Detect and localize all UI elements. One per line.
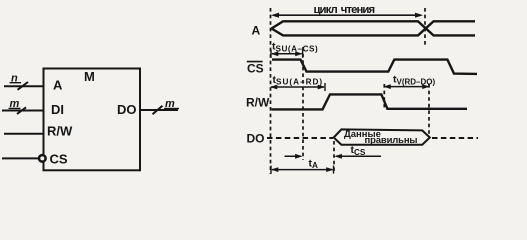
svg-text:правильны: правильны: [365, 135, 418, 146]
dashed line at cycle end: [424, 8, 426, 45]
svg-text:A: A: [252, 24, 261, 38]
bus A waveform: [272, 21, 476, 35]
svg-text:DO: DO: [117, 102, 137, 117]
read-cycle dimension arrow: [273, 14, 421, 16]
wire DO output: [140, 109, 178, 111]
svg-text:цикл чтения: цикл чтения: [314, 4, 375, 16]
dashed line at cycle start (node L1): [270, 8, 272, 174]
dashed line at CS fall (node L2): [302, 47, 304, 160]
t_A dimension arrow: [272, 169, 333, 171]
t_V(RD-DO) dimension arrow: [385, 86, 429, 88]
svg-text:DI: DI: [51, 102, 64, 117]
t_SU(A-RD) dimension arrow: [271, 86, 324, 88]
dashed line at DO invalid (node L6): [428, 84, 430, 137]
svg-text:A: A: [53, 78, 63, 93]
bus slash on A wire: [18, 82, 29, 90]
svg-text:DO: DO: [247, 132, 265, 146]
bus slash on DO wire: [153, 106, 163, 115]
t_CS dimension arrows (outside style): [285, 155, 302, 157]
CS inversion bubble: [39, 155, 46, 162]
svg-text:CS: CS: [247, 62, 264, 76]
dashed line at R/W fall (node L5): [383, 84, 385, 109]
DO invalid dashed line (left): [267, 137, 333, 139]
svg-text:R/W: R/W: [47, 123, 73, 138]
wire CS input: [2, 157, 38, 159]
R/W waveform: [272, 94, 468, 109]
bus slash on DI wire: [17, 107, 26, 114]
t_SU(A-CS) dimension arrow: [272, 53, 302, 55]
CS waveform: [272, 60, 477, 74]
svg-text:R/W: R/W: [246, 96, 270, 110]
dashed line at DO valid start (node L4): [333, 141, 335, 172]
DO valid hexagon: [334, 129, 430, 144]
memory block U1 (M): [44, 69, 141, 171]
svg-text:M: M: [84, 69, 95, 84]
DO invalid dashed line (right): [432, 137, 478, 139]
wire A input: [4, 85, 44, 87]
wire R/W input: [4, 133, 44, 135]
svg-text:CS: CS: [50, 152, 68, 167]
wire DI input: [2, 110, 44, 112]
